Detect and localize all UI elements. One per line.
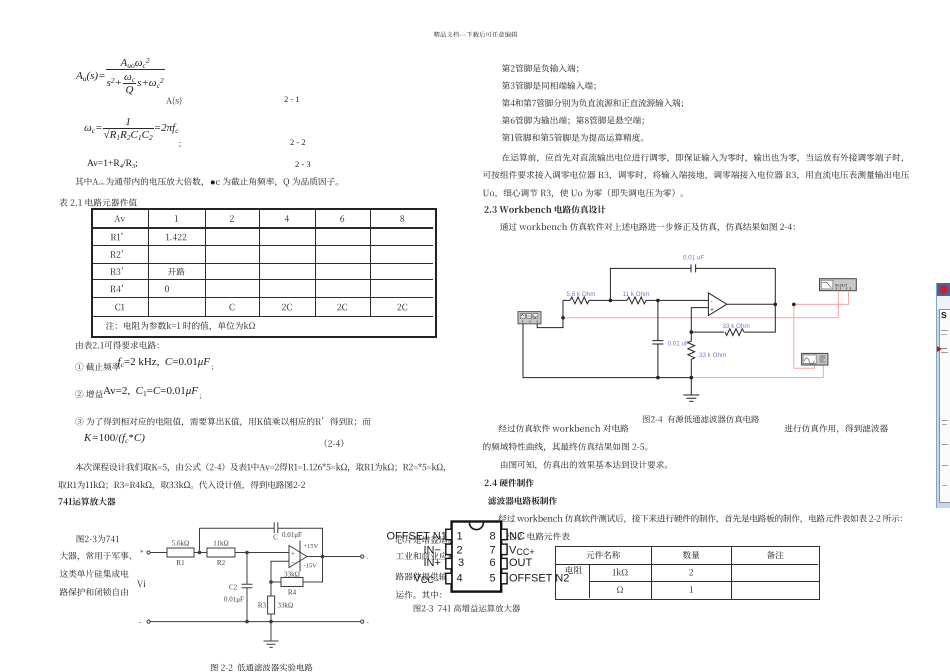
- capacitor 0.01uF shunt: [652, 341, 663, 344]
- pin 1: [446, 529, 452, 540]
- svg-text:8: 8: [490, 530, 496, 542]
- svg-text:VCC+: VCC+: [509, 545, 535, 558]
- math in list item 2: [103, 385, 202, 397]
- wire feedback down: [744, 304, 775, 332]
- svg-text:7: 7: [490, 545, 496, 557]
- wire bottom rail: [523, 324, 691, 378]
- svg-text:−: −: [291, 559, 295, 567]
- wire C2 to ground rail: [246, 588, 248, 622]
- wire cap to output node: [696, 268, 776, 304]
- svg-text:IN OUT: IN OUT: [835, 283, 848, 287]
- node output terminal: [361, 555, 364, 558]
- capacitor 0.01uF top: [691, 264, 696, 272]
- capacitor C2: [242, 584, 253, 588]
- op-amp power pins: [299, 541, 301, 572]
- svg-text:OFFSET N2: OFFSET N2: [509, 573, 569, 585]
- pin 4: [446, 573, 452, 584]
- wire R4 to output: [303, 557, 323, 583]
- svg-text:-: -: [367, 619, 370, 627]
- node I junction: [690, 330, 694, 334]
- wire op-amp output: [727, 303, 776, 305]
- wire node C to R4: [271, 581, 281, 583]
- node J junction: [656, 376, 660, 380]
- resistor 11k: [627, 297, 646, 304]
- wire 11k to op-amp: [646, 299, 708, 301]
- svg-text:5.6kΩ: 5.6kΩ: [172, 540, 189, 548]
- node GND-IN terminal: [147, 620, 150, 623]
- wire node H down to cap: [657, 300, 659, 340]
- wire R1 to R2: [194, 552, 207, 554]
- svg-text:R3: R3: [258, 602, 267, 610]
- wire generator to node: [537, 300, 563, 327]
- svg-text:5: 5: [490, 573, 496, 585]
- node IN+ terminal: [147, 551, 150, 554]
- svg-text:0.01 uF: 0.01 uF: [683, 255, 705, 262]
- resistor R3: [268, 596, 275, 614]
- svg-text:VCC−: VCC−: [414, 573, 440, 586]
- resistor R2: [207, 548, 235, 557]
- svg-text:11kΩ: 11kΩ: [213, 540, 228, 548]
- node K junction: [690, 376, 694, 380]
- svg-text:R1: R1: [176, 559, 185, 567]
- resistor R4: [281, 578, 303, 587]
- svg-text:OUT: OUT: [509, 557, 533, 569]
- svg-text:IN+: IN+: [424, 557, 441, 569]
- node C junction: [269, 580, 273, 584]
- wire 33k shunt to rail: [690, 365, 692, 378]
- svg-text:33kΩ: 33kΩ: [278, 602, 294, 610]
- wire scope A (red): [794, 304, 815, 368]
- svg-text:2: 2: [457, 545, 463, 557]
- wire R2 to op-amp: [235, 552, 289, 554]
- wire op-amp output: [307, 556, 361, 558]
- svg-text:33 k Ohm: 33 k Ohm: [723, 323, 750, 330]
- node B junction: [245, 551, 249, 555]
- pin 6: [501, 558, 507, 569]
- node A junction: [198, 551, 202, 555]
- bode plotter XBP: [820, 279, 857, 291]
- oscilloscope XSC: [802, 353, 828, 365]
- node D junction: [245, 620, 249, 624]
- svg-text:R4: R4: [288, 589, 297, 597]
- wire bode IN (red): [563, 292, 838, 318]
- pin 8: [501, 529, 507, 540]
- wire bode OUT (red): [794, 292, 849, 305]
- svg-text:1: 1: [457, 530, 463, 542]
- K formula: [84, 432, 145, 444]
- svg-text:R2: R2: [217, 559, 226, 567]
- wire feedback top right: [278, 528, 323, 556]
- svg-text:OFFSET N1: OFFSET N1: [387, 530, 447, 542]
- wire node B down to C2: [246, 553, 248, 585]
- wire node A up to feedback: [199, 528, 201, 552]
- svg-text:33kΩ: 33kΩ: [284, 571, 300, 579]
- pin 3: [446, 558, 452, 569]
- pin 5: [501, 573, 507, 584]
- wire bottom rail: [150, 621, 361, 623]
- function generator XFG: [518, 312, 541, 324]
- resistor 5.6k: [570, 297, 589, 304]
- wire R3 to ground rail: [270, 614, 272, 622]
- wire 33k to + input: [691, 308, 724, 333]
- ground: [683, 378, 699, 402]
- wire input to R1: [150, 552, 167, 554]
- op-amp U1 DIP-8 body: [452, 522, 502, 592]
- node F junction: [561, 316, 565, 320]
- svg-text:NC: NC: [509, 530, 525, 542]
- notch: [469, 523, 483, 530]
- svg-text:-: -: [711, 299, 713, 305]
- svg-text:C: C: [273, 534, 278, 542]
- resistor 33k shunt: [688, 332, 695, 365]
- svg-text:4: 4: [457, 573, 463, 585]
- svg-text:-: -: [139, 618, 142, 626]
- node E junction: [269, 620, 273, 624]
- op-amp: [708, 293, 726, 316]
- svg-text:IN−: IN−: [424, 545, 441, 557]
- svg-text:11 k Ohm: 11 k Ohm: [623, 291, 650, 298]
- svg-text:.: .: [367, 553, 369, 561]
- svg-text:0.01μF: 0.01μF: [282, 531, 302, 539]
- svg-text:0.01 uF: 0.01 uF: [668, 341, 690, 348]
- node OUT2 junction: [792, 303, 796, 307]
- node GND-OUT terminal: [361, 620, 364, 623]
- svg-text:C2: C2: [229, 584, 238, 592]
- wire node G up to cap 0.01: [610, 268, 691, 300]
- wire feedback top left: [200, 527, 275, 529]
- wire R5.6k to node G: [589, 299, 627, 301]
- node OUT junction: [321, 555, 325, 559]
- wire to R 5.6k: [563, 299, 570, 301]
- resistor R1: [167, 548, 194, 557]
- pin 7: [501, 544, 507, 555]
- svg-text:0.01μF: 0.01μF: [224, 596, 244, 604]
- node G junction: [609, 299, 613, 303]
- svg-text:-15V: -15V: [304, 563, 318, 570]
- node H junction: [656, 299, 660, 303]
- wire scope ground (red): [691, 365, 823, 377]
- svg-text:+: +: [710, 308, 714, 314]
- ground: [264, 622, 279, 648]
- pin 2: [446, 544, 452, 555]
- svg-text:*: *: [140, 549, 144, 557]
- svg-text:+: +: [291, 550, 295, 558]
- svg-text:6: 6: [490, 557, 496, 569]
- capacitor C: [274, 522, 278, 533]
- svg-text:3: 3: [458, 557, 464, 569]
- svg-text:5.6 k Ohm: 5.6 k Ohm: [567, 291, 596, 298]
- op-amp U1: [289, 546, 307, 568]
- resistor 33k feedback: [725, 329, 744, 336]
- wire node C to R3: [270, 582, 272, 596]
- node OUT junction: [774, 303, 778, 307]
- wire cap to bottom rail: [657, 344, 659, 378]
- wire inverting input: [271, 561, 289, 582]
- svg-text:+15V: +15V: [304, 543, 319, 550]
- math in list item 1: [118, 356, 214, 368]
- svg-text:33 k Ohm: 33 k Ohm: [699, 352, 726, 359]
